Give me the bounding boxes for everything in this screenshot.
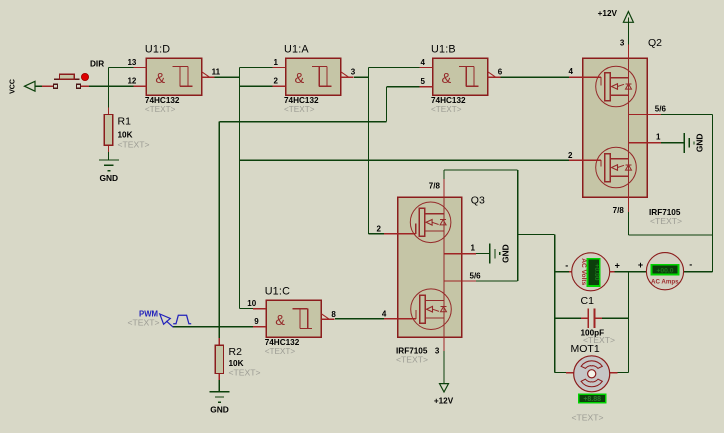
PWM input generator <box>128 310 192 328</box>
NAND gate U1:D 74HC132 <box>127 44 220 114</box>
svg-text:13: 13 <box>127 58 136 67</box>
svg-text:<TEXT>: <TEXT> <box>118 140 150 150</box>
svg-text:12: 12 <box>127 77 136 86</box>
motor MOT1 with rpm display <box>566 343 618 423</box>
svg-text:<TEXT>: <TEXT> <box>128 318 160 328</box>
wire R2 bottom to ground <box>218 373 220 391</box>
wire U1:C output 8 to Q3 pin 4 <box>335 318 398 320</box>
wire R1 bottom to ground <box>107 145 109 160</box>
svg-text:7/8: 7/8 <box>613 206 625 215</box>
ground (Q3 pin1) <box>490 244 511 264</box>
svg-text:MOT1: MOT1 <box>571 343 600 355</box>
svg-text:GND: GND <box>210 405 229 415</box>
wire Q3 drains 7/8 + 5/6 to voltmeter negative <box>444 170 555 281</box>
wire PWM net to U1:B pin 5, R2 and U1:C pin 9 <box>173 87 432 345</box>
svg-text:74HC132: 74HC132 <box>431 96 466 105</box>
svg-text:<TEXT>: <TEXT> <box>145 105 176 114</box>
svg-text:<TEXT>: <TEXT> <box>229 367 261 377</box>
svg-text:+: + <box>615 261 620 271</box>
svg-text:11: 11 <box>212 68 221 77</box>
wire U1:D output 11 to U1:A inputs, U1:C pin 10, Q2 pin 2 (net /DIR) <box>214 68 583 309</box>
svg-text:C1: C1 <box>581 295 595 307</box>
svg-text:U1:B: U1:B <box>431 44 456 56</box>
capacitor C1 100pF <box>581 295 616 345</box>
svg-text:1: 1 <box>656 133 661 142</box>
svg-text:5/6: 5/6 <box>655 105 667 114</box>
svg-text:4: 4 <box>569 67 574 76</box>
wire Q3 pin 3 to +12V <box>443 351 445 384</box>
wire Q2 drains 5/6 + 7/8 to ammeter negative <box>628 114 712 271</box>
wire Q2 pin 1 to ground <box>661 142 684 144</box>
svg-text:4: 4 <box>382 310 387 319</box>
svg-text:&: & <box>155 71 165 87</box>
svg-text:+0.00: +0.00 <box>593 263 600 280</box>
dual MOSFET Q3 IRF7105 <box>377 179 485 365</box>
resistor R2 10K <box>215 338 260 380</box>
power symbol VCC <box>10 79 36 94</box>
svg-text:74HC132: 74HC132 <box>265 338 300 347</box>
svg-text:3: 3 <box>435 347 440 356</box>
svg-text:GND: GND <box>695 133 705 152</box>
svg-text:+12V: +12V <box>598 9 618 18</box>
svg-text:1: 1 <box>274 58 279 67</box>
svg-text:AC Volts: AC Volts <box>580 258 587 285</box>
svg-text:R2: R2 <box>229 346 243 358</box>
wire node DIR vertical + branch to U1:D pin 13 <box>108 68 146 115</box>
svg-text:<TEXT>: <TEXT> <box>396 355 428 365</box>
wire voltmeter negative vertical / motor left / C1 left <box>555 234 581 372</box>
dual MOSFET Q2 IRF7105 <box>568 37 682 226</box>
AC voltmeter (across motor) <box>565 253 620 291</box>
svg-text:2: 2 <box>377 225 382 234</box>
svg-text:-: - <box>565 261 568 271</box>
svg-text:Q3: Q3 <box>471 195 485 207</box>
svg-text:2: 2 <box>568 151 573 160</box>
svg-text:5/6: 5/6 <box>470 272 482 281</box>
svg-text:6: 6 <box>498 68 503 77</box>
wire U1:B output 6 to Q2 pin 4 <box>500 76 583 78</box>
svg-text:<TEXT>: <TEXT> <box>284 105 315 114</box>
svg-text:74HC132: 74HC132 <box>145 96 180 105</box>
svg-text:<TEXT>: <TEXT> <box>265 347 296 356</box>
wire motor plus node: voltmeter to ammeter / C1 right / motor right <box>602 272 649 373</box>
svg-text:<TEXT>: <TEXT> <box>572 413 604 423</box>
wire Q2 pin 3 to +12V <box>627 27 629 45</box>
svg-text:8: 8 <box>331 310 336 319</box>
power +12V (bottom) <box>434 384 454 406</box>
svg-text:9: 9 <box>254 317 259 326</box>
svg-text:74HC132: 74HC132 <box>284 96 319 105</box>
svg-text:1: 1 <box>471 244 476 253</box>
wire VCC to switch <box>35 85 49 87</box>
svg-text:GND: GND <box>500 244 510 263</box>
svg-text:&: & <box>275 313 285 329</box>
svg-text:<TEXT>: <TEXT> <box>650 216 682 226</box>
svg-text:&: & <box>295 71 305 87</box>
svg-text:3: 3 <box>351 68 356 77</box>
svg-text:DIR: DIR <box>90 60 104 69</box>
svg-text:U1:A: U1:A <box>284 44 309 56</box>
power +12V (top) <box>598 9 634 27</box>
svg-text:7/8: 7/8 <box>429 182 441 191</box>
svg-text:+00.0: +00.0 <box>656 268 673 275</box>
wire Q3 pin 1 to ground <box>476 253 490 255</box>
svg-text:4: 4 <box>421 58 426 67</box>
svg-text:3: 3 <box>620 39 625 48</box>
NAND gate U1:B 74HC132 <box>420 44 503 114</box>
svg-text:AC Amps: AC Amps <box>651 278 679 285</box>
node DIR <box>90 60 104 69</box>
svg-text:<TEXT>: <TEXT> <box>431 105 462 114</box>
svg-text:10K: 10K <box>118 131 133 140</box>
svg-text:5: 5 <box>421 77 426 86</box>
svg-text:+8.88: +8.88 <box>583 396 601 403</box>
pushbutton SW1 (DIR) <box>42 73 89 88</box>
svg-text:U1:C: U1:C <box>265 286 290 298</box>
svg-text:-: - <box>689 260 692 270</box>
svg-text:&: & <box>442 71 452 87</box>
svg-text:10: 10 <box>247 299 256 308</box>
NAND gate U1:A 74HC132 <box>273 44 356 114</box>
ground (R2) <box>210 392 230 415</box>
svg-text:U1:D: U1:D <box>145 44 170 56</box>
svg-text:Q2: Q2 <box>648 37 662 49</box>
wire switch to node DIR / U1:D pin 12 <box>82 85 147 87</box>
svg-text:R1: R1 <box>118 116 132 128</box>
svg-text:2: 2 <box>274 77 279 86</box>
svg-text:VCC: VCC <box>10 79 17 94</box>
svg-text:GND: GND <box>99 173 118 183</box>
AC ammeter (in series) <box>638 253 692 290</box>
resistor R1 10K <box>104 108 149 153</box>
NAND gate U1:C 74HC132 <box>247 286 336 356</box>
ground (Q2 pin1) <box>684 133 705 153</box>
svg-text:+: + <box>638 260 643 270</box>
ground (R1) <box>99 160 119 183</box>
wire U1:A output 3 to U1:B pin 4 and Q3 pin 2 (net DIR') <box>354 68 433 234</box>
svg-text:+12V: +12V <box>434 397 454 406</box>
